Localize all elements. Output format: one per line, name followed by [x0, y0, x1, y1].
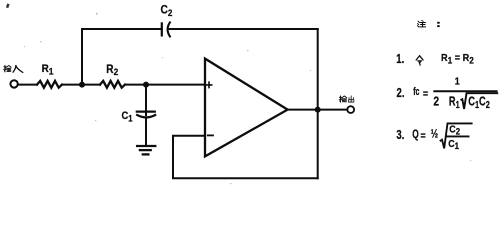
svg-text:R1: R1 — [42, 63, 54, 76]
svg-text:2.: 2. — [397, 87, 405, 101]
svg-text:fc: fc — [413, 86, 419, 98]
svg-text:=: = — [421, 130, 426, 142]
svg-text:R1 = R2: R1 = R2 — [441, 53, 474, 66]
svg-text:½: ½ — [431, 129, 439, 141]
svg-text:C1: C1 — [448, 138, 459, 151]
svg-text:1.: 1. — [396, 53, 404, 67]
svg-text:Q: Q — [412, 129, 419, 142]
svg-text:C1: C1 — [122, 111, 133, 124]
svg-text:C2: C2 — [449, 124, 460, 137]
svg-text:2: 2 — [433, 93, 439, 109]
svg-text:=: = — [423, 89, 428, 101]
svg-text:3.: 3. — [396, 128, 404, 142]
svg-text:1: 1 — [455, 76, 460, 88]
